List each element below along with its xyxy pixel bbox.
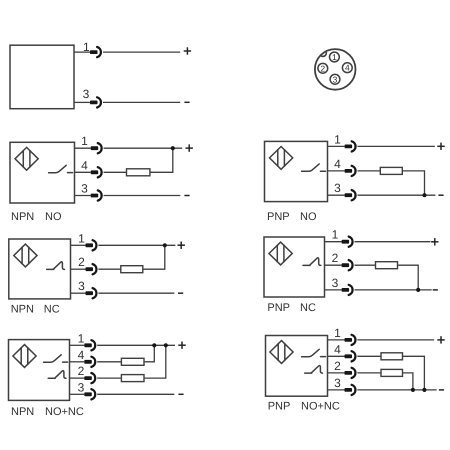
PNP NO+NC wire pin 2 from body to connector — [328, 372, 345, 374]
connector pin contact (black) — [90, 101, 98, 105]
PNP NO sensor symbol (diamond) — [270, 147, 293, 170]
wire junction dot — [171, 146, 175, 150]
PNP NO+NC load resistor (NC output) — [381, 369, 403, 376]
svg-text:NO: NO — [45, 211, 62, 223]
wire pin 1 to connector — [74, 51, 90, 53]
svg-text:1: 1 — [78, 231, 85, 245]
NPN NO+NC wire pin 2 from body to connector — [70, 377, 85, 379]
PNP NC wire pin 1 to + supply — [355, 241, 431, 243]
connector pin contact (black) — [345, 145, 353, 149]
NPN NO+NC wire pin 4 connector to load — [97, 361, 121, 363]
connector socket arc — [91, 389, 95, 399]
PNP NO+NC wire NC load to junction riser — [403, 373, 413, 390]
PNP NO wire pin 1 from body to connector — [328, 145, 345, 147]
svg-text:NPN: NPN — [11, 211, 34, 223]
PNP NO sensor body — [265, 141, 328, 201]
connector pin contact (black) — [345, 354, 353, 358]
NPN NO wire load to junction riser — [150, 148, 173, 172]
connector socket arc — [349, 285, 353, 295]
NPN NO+NC wire pin 3 from body to connector — [70, 393, 85, 395]
connector socket arc — [93, 264, 97, 274]
+ supply terminal — [437, 336, 444, 343]
NPN NC wire pin 3 to - supply — [98, 292, 174, 294]
NPN NO load resistor — [127, 169, 150, 176]
PNP NO+NC wire pin 2 connector to load — [357, 372, 381, 374]
NPN NO+NC wire pin 1 from body to connector — [70, 344, 85, 346]
wire junction dot — [152, 343, 156, 347]
svg-text:3: 3 — [81, 182, 88, 196]
svg-text:PNP: PNP — [267, 302, 290, 314]
- supply terminal — [433, 289, 438, 291]
NPN NO+NC wire pin 3 to - supply — [97, 393, 174, 395]
+ supply terminal — [184, 47, 191, 54]
svg-text:3: 3 — [334, 181, 341, 195]
PNP NO wire pin 3 from body to connector — [328, 194, 345, 196]
+ supply terminal — [186, 144, 193, 151]
NPN NC sensor body — [9, 239, 71, 299]
connector pin contact (black) — [345, 169, 353, 173]
svg-text:1: 1 — [332, 228, 339, 242]
svg-text:1: 1 — [81, 134, 88, 148]
connector pin contact (black) — [90, 50, 98, 54]
PNP NO wire load to junction riser — [402, 171, 424, 195]
NPN NO wire pin 4 connector to load — [104, 171, 127, 173]
NPN NC load resistor — [121, 266, 143, 273]
PNP NC sensor symbol (diamond) — [269, 242, 292, 265]
connector pin contact (black) — [86, 243, 94, 247]
svg-text:PNP: PNP — [267, 211, 290, 223]
connector socket arc — [91, 357, 95, 367]
- supply terminal — [184, 101, 189, 103]
svg-text:3: 3 — [78, 380, 85, 394]
svg-text:1: 1 — [334, 326, 341, 340]
PNP NO+NC load resistor (NO output) — [381, 353, 403, 360]
svg-text:4: 4 — [78, 348, 85, 362]
NPN NO+NC load resistor (NO output) — [121, 358, 144, 365]
PNP NO+NC wire pin 1 to + supply — [357, 339, 434, 341]
NPN NC wire pin 2 from body to connector — [71, 268, 86, 270]
connector pin contact (black) — [342, 288, 350, 292]
connector socket arc — [93, 240, 97, 250]
PNP NO wire pin 1 to + supply — [358, 145, 435, 147]
connector socket arc — [352, 335, 356, 345]
- supply terminal — [438, 194, 443, 196]
PNP NO+NC wire pin 1 from body to connector — [328, 339, 345, 341]
NPN NO+NC wire NC load to junction riser — [144, 345, 166, 378]
svg-text:2: 2 — [332, 251, 339, 265]
svg-text:1: 1 — [78, 331, 85, 345]
NPN NC sensor symbol (diamond) — [14, 244, 37, 267]
svg-text:2: 2 — [320, 63, 325, 73]
wire junction dot — [416, 288, 420, 292]
connector socket arc — [98, 167, 102, 177]
wire junction dot — [422, 193, 426, 197]
connector socket arc — [352, 385, 356, 395]
svg-text:1: 1 — [332, 52, 337, 62]
wire junction dot — [164, 343, 168, 347]
connector socket arc — [352, 190, 356, 200]
svg-text:4: 4 — [334, 342, 341, 356]
svg-text:3: 3 — [78, 279, 85, 293]
NPN NC switch contact — [47, 262, 65, 270]
connector pin contact (black) — [84, 376, 92, 380]
PNP NC wire pin 1 from body to connector — [325, 241, 342, 243]
wire junction dot — [163, 243, 167, 247]
connector pin contact (black) — [345, 388, 353, 392]
svg-text:3: 3 — [83, 87, 90, 101]
- supply terminal — [439, 389, 444, 391]
NPN NO switch contact — [49, 165, 73, 172]
svg-text:4: 4 — [81, 158, 88, 172]
- supply terminal — [184, 195, 189, 197]
connector socket arc — [97, 97, 101, 107]
NPN NO wire pin 3 to - supply — [104, 195, 181, 197]
connector pin contact (black) — [342, 240, 350, 244]
PNP NC sensor body — [264, 237, 325, 297]
connector contact 2 (circle) — [318, 63, 328, 73]
NPN NO+NC wire pin 1 to + supply — [97, 344, 175, 346]
- supply terminal — [178, 393, 183, 395]
connector socket arc — [352, 351, 356, 361]
connector socket arc — [352, 166, 356, 176]
connector socket arc — [349, 260, 353, 270]
PNP NO wire pin 3 to - supply — [358, 194, 436, 196]
PNP NC wire load to junction riser — [398, 265, 419, 290]
connector pin contact (black) — [86, 291, 94, 295]
connector pin contact (black) — [345, 338, 353, 342]
NPN NO wire pin 1 to + supply — [104, 147, 183, 149]
connector socket arc — [98, 190, 102, 200]
NPN NO+NC NC switch contact — [48, 371, 66, 379]
PNP NC wire pin 3 to - supply — [355, 289, 432, 291]
PNP NO+NC NC switch contact — [305, 365, 323, 373]
PNP NC load resistor — [376, 262, 398, 269]
PNP NO+NC wire pin 3 from body to connector — [328, 389, 345, 391]
connector pin contact (black) — [84, 343, 92, 347]
wire pin 3 to - supply — [103, 101, 180, 103]
PNP NC wire pin 2 connector to load — [355, 264, 376, 266]
connector socket arc — [91, 340, 95, 350]
PNP NC switch contact — [303, 258, 321, 266]
connector socket arc — [349, 237, 353, 247]
svg-text:NPN: NPN — [11, 406, 34, 418]
PNP NO+NC NO switch contact — [302, 349, 326, 356]
+ supply terminal — [437, 143, 444, 150]
NPN NO+NC sensor symbol (diamond) — [13, 345, 36, 368]
connector contact 4 (circle) — [342, 63, 352, 73]
connector pin contact (black) — [345, 371, 353, 375]
PNP NO wire pin 4 connector to load — [358, 170, 381, 172]
PNP NO+NC sensor body — [266, 336, 328, 397]
connector socket arc — [97, 47, 101, 57]
connector face outline (circle) — [315, 49, 356, 90]
NPN NO sensor symbol (diamond) — [15, 147, 38, 170]
connector socket arc — [93, 288, 97, 298]
NPN NO wire pin 4 from body to connector — [75, 171, 91, 173]
svg-text:2: 2 — [334, 359, 341, 373]
wire junction dot — [411, 388, 415, 392]
NPN NC wire load to junction riser — [143, 245, 165, 269]
svg-text:NO+NC: NO+NC — [45, 406, 84, 418]
PNP NO+NC wire pin 4 connector to load — [357, 355, 381, 357]
svg-text:PNP: PNP — [268, 401, 291, 413]
connector socket arc — [352, 368, 356, 378]
connector contact 3 (circle) — [330, 74, 340, 84]
NPN NC wire pin 3 from body to connector — [71, 292, 86, 294]
wire junction dot — [422, 388, 426, 392]
connector pin contact (black) — [86, 267, 94, 271]
connector pin contact (black) — [84, 360, 92, 364]
NPN NO+NC wire pin 4 from body to connector — [70, 361, 85, 363]
NPN NO wire pin 3 from body to connector — [75, 195, 91, 197]
wire pin 3 to connector — [74, 101, 90, 103]
connector socket arc — [98, 143, 102, 153]
NPN NO+NC NO switch contact — [44, 355, 68, 362]
+ supply terminal — [431, 238, 438, 245]
NPN NO+NC sensor body — [9, 340, 70, 401]
connector pin contact (black) — [91, 170, 99, 174]
NPN NO sensor body — [10, 142, 75, 203]
connector contact 1 (circle) — [330, 52, 340, 62]
svg-text:3: 3 — [333, 74, 338, 84]
NPN NO wire pin 1 from body to connector — [75, 147, 91, 149]
svg-text:NC: NC — [44, 304, 60, 316]
PNP NO+NC wire pin 3 to - supply — [357, 389, 436, 391]
PNP NO switch contact — [302, 164, 326, 171]
svg-text:2: 2 — [78, 255, 85, 269]
connector pin contact (black) — [91, 194, 99, 198]
PNP NO+NC wire NO load to junction riser — [403, 356, 425, 390]
sensor body (overview, top-left) — [10, 45, 74, 108]
svg-text:NO: NO — [300, 211, 317, 223]
PNP NC wire pin 2 from body to connector — [325, 264, 342, 266]
connector pin contact (black) — [84, 392, 92, 396]
PNP NO+NC sensor symbol (diamond) — [270, 341, 293, 364]
PNP NO wire pin 4 from body to connector — [328, 170, 345, 172]
svg-text:2: 2 — [78, 364, 85, 378]
NPN NO+NC load resistor (NC output) — [121, 375, 144, 382]
svg-text:NC: NC — [300, 302, 316, 314]
PNP NO+NC wire pin 4 from body to connector — [328, 355, 345, 357]
NPN NO+NC wire NO load to junction riser — [144, 345, 154, 362]
connector pin contact (black) — [345, 193, 353, 197]
wire pin 1 to + supply — [103, 51, 180, 53]
PNP NC wire pin 3 from body to connector — [325, 289, 342, 291]
connector socket arc — [352, 141, 356, 151]
NPN NC wire pin 2 connector to load — [98, 268, 120, 270]
svg-text:3: 3 — [334, 376, 341, 390]
svg-text:4: 4 — [345, 63, 350, 73]
svg-text:1: 1 — [334, 132, 341, 146]
NPN NC wire pin 1 from body to connector — [71, 244, 86, 246]
NPN NO+NC wire pin 2 connector to load — [97, 377, 121, 379]
connector socket arc — [91, 373, 95, 383]
connector pin contact (black) — [342, 263, 350, 267]
svg-text:3: 3 — [332, 276, 339, 290]
PNP NO load resistor — [380, 167, 402, 174]
- supply terminal — [178, 292, 183, 294]
svg-text:NO+NC: NO+NC — [301, 401, 340, 413]
NPN NC wire pin 1 to + supply — [98, 244, 175, 246]
svg-text:4: 4 — [334, 157, 341, 171]
+ supply terminal — [178, 242, 185, 249]
+ supply terminal — [178, 342, 185, 349]
svg-text:NPN: NPN — [11, 304, 34, 316]
connector pin contact (black) — [91, 146, 99, 150]
